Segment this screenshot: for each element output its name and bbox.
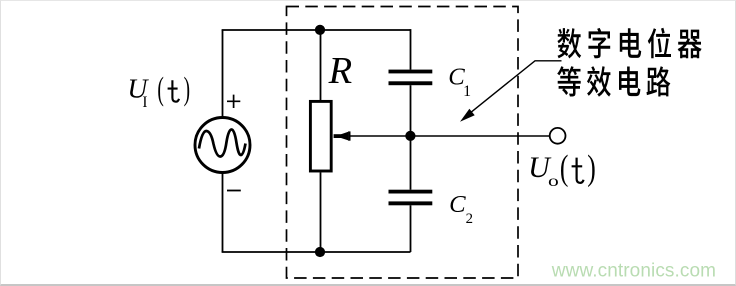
label Uo(t) (528, 147, 596, 190)
annotation text line2 等效电路 (557, 66, 670, 97)
potentiometer R body (310, 101, 331, 171)
watermark www.cntronics.com (551, 261, 716, 282)
polarity plus sign (227, 95, 240, 108)
svg-text:I: I (142, 94, 147, 111)
svg-text:C: C (449, 191, 466, 218)
svg-text:o: o (548, 173, 559, 190)
wire capacitor branch upper (410, 29, 412, 70)
svg-text:): ) (587, 147, 596, 187)
label Ui(t) (127, 70, 190, 111)
wire top horizontal (222, 29, 411, 31)
annotation leader line with arrowhead (460, 61, 562, 122)
label R (328, 50, 353, 92)
wire wiper to output terminal (350, 135, 549, 137)
wire potentiometer branch upper (320, 30, 322, 100)
capacitor C2 plates (389, 190, 433, 206)
capacitor C1 plates (389, 70, 433, 86)
wire capacitor branch lower (410, 205, 412, 252)
AC source U1 circle (195, 118, 250, 173)
svg-text:(: ( (157, 70, 164, 106)
label C2 (449, 191, 473, 227)
junction node wiper-capacitor (405, 131, 415, 141)
AC source sine wave (199, 130, 246, 157)
wire bottom horizontal (222, 251, 411, 253)
junction node bottom (315, 247, 325, 257)
svg-text:www.cntronics.com: www.cntronics.com (551, 261, 716, 282)
svg-text:(: ( (560, 147, 569, 187)
dashed boundary box (equivalent-circuit outline) (287, 7, 519, 279)
svg-text:R: R (328, 50, 353, 92)
svg-text:1: 1 (463, 83, 471, 100)
annotation text line1 数字电位器 (557, 28, 701, 59)
svg-text:2: 2 (466, 211, 473, 227)
wire capacitor branch middle (410, 85, 412, 190)
polarity minus sign (227, 190, 241, 192)
svg-text:): ) (184, 70, 190, 106)
junction node top (315, 25, 325, 35)
wire left vertical (source branch) (222, 30, 224, 252)
label C1 (448, 64, 471, 101)
output terminal circle (550, 128, 566, 144)
potentiometer wiper arrow (334, 131, 351, 140)
wire potentiometer branch lower (320, 173, 322, 253)
